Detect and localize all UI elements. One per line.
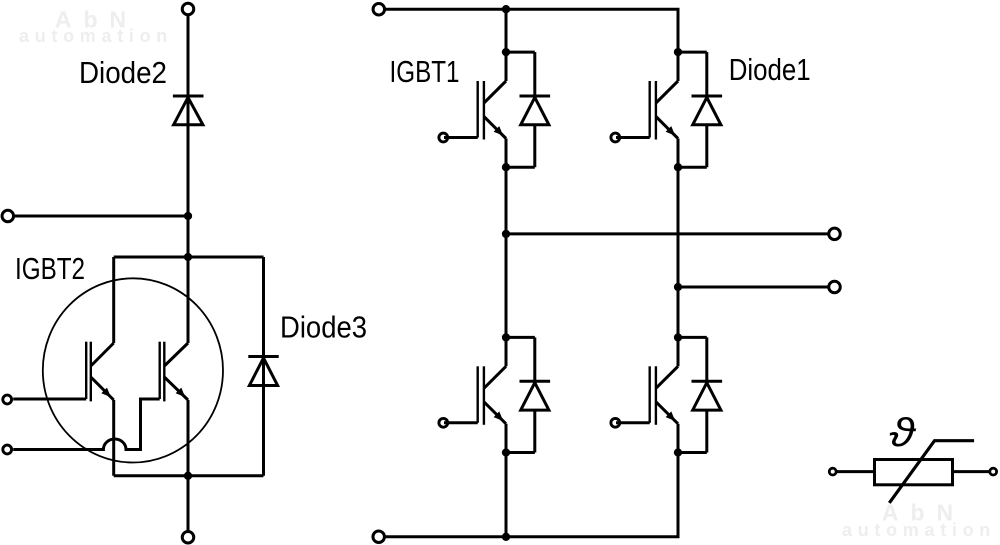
watermark top-left "AbN automation" — [19, 7, 173, 47]
transistor Q1 (top-left) emitter arrow — [494, 126, 504, 136]
transistor Q3 (bottom-left) emitter arrow — [494, 411, 504, 421]
transistor IGBT2-A body bar — [90, 342, 92, 402]
terminal V (output 2) — [829, 281, 841, 293]
diode Diode2 triangle — [174, 97, 203, 124]
svg-text:ϑ: ϑ — [889, 411, 917, 455]
svg-text:Diode2: Diode2 — [79, 55, 167, 90]
diode Diode3 triangle — [249, 358, 277, 386]
wire gate lead G1 — [13, 398, 86, 401]
transistor Q4 (bottom-right) emitter diagonal — [656, 402, 678, 424]
wire IGBT2-B collector lead — [187, 257, 190, 343]
wire Q2 (top-right) diode bottom stub — [678, 166, 707, 169]
watermark bottom-right "AbN automation" — [842, 500, 996, 541]
wire IGBT2-A collector lead — [112, 257, 115, 343]
wire Q2 (top-right) diode cathode lead — [705, 52, 708, 96]
wire IGBT2 module bottom rail — [114, 474, 264, 477]
terminal P3 (bottom of IGBT2 branch) — [182, 532, 194, 544]
junction Q3 (bottom-left) collector node — [502, 333, 510, 341]
wire Q2 (top-right) gate lead — [616, 136, 650, 139]
wire terminal P2 to node A — [14, 215, 188, 218]
transistor Q4 (bottom-right) collector lead — [677, 337, 680, 366]
wire left column between modules — [505, 167, 508, 337]
transistor Q3 (bottom-left) gate bar — [477, 366, 479, 423]
wire Q3 (bottom-left) diode cathode lead — [533, 337, 536, 381]
junction Q1 (top-left) emitter node — [502, 163, 510, 171]
wire Q4 (bottom-right) diode anode lead — [705, 410, 708, 452]
junction Q4 (bottom-right) collector node — [674, 333, 682, 341]
transistor IGBT2-B collector diagonal — [164, 343, 188, 366]
junction node C (IGBT2 bottom rail) — [184, 472, 192, 480]
diode D1b cathode bar — [692, 95, 723, 98]
transistor IGBT2-A collector diagonal — [91, 343, 114, 366]
transistor Q1 (top-left) gate bar — [477, 81, 479, 138]
transistor Q3 (bottom-left) collector diagonal — [484, 366, 506, 388]
wire Q2 (top-right) emitter lead — [677, 139, 680, 168]
transistor Q2 (top-right) emitter arrow — [666, 126, 676, 136]
transistor IGBT2-B body bar — [163, 342, 165, 402]
terminal P1 (top of Diode2 branch) — [182, 3, 194, 15]
transistor Q1 (top-left) emitter diagonal — [484, 117, 506, 139]
wire Q1 (top-left) diode cathode lead — [533, 52, 536, 96]
transistor IGBT2-A (left transistor of module) — [86, 257, 114, 476]
wire IGBT2 module top rail — [114, 256, 264, 259]
wire phase rail U to terminal — [506, 232, 829, 235]
terminal Q1 (top-left) gate — [439, 133, 448, 142]
transistor IGBT2-B (right transistor of module) — [160, 257, 188, 476]
transistor Q3 (bottom-left) body bar — [483, 366, 485, 425]
transistor IGBT2-A gate bar — [85, 342, 87, 399]
transistor Q4 (bottom-right) body bar — [655, 366, 657, 425]
transistor IGBT2-A emitter arrow — [101, 388, 111, 398]
wire Q4 (bottom-right) gate lead — [616, 421, 650, 424]
junction Q3 (bottom-left) emitter node — [502, 448, 510, 456]
wire Q2 (top-right) diode anode lead — [705, 125, 708, 167]
wire Q4 (bottom-right) emitter lead — [677, 424, 680, 453]
wire Q4 (bottom-right) diode bottom stub — [678, 451, 707, 454]
svg-text:automation: automation — [842, 520, 996, 540]
terminal DC+ (top middle) — [373, 3, 385, 15]
terminal DC- (bottom middle) — [373, 531, 385, 543]
junction Q1 (top-left) collector node — [502, 48, 510, 56]
junction phase node U (left column) — [502, 230, 510, 238]
svg-text:automation: automation — [19, 26, 173, 46]
wire thermistor left lead — [836, 470, 874, 473]
wire Q3 (bottom-left) diode top stub — [506, 336, 535, 339]
junction Q2 (top-right) emitter node — [674, 163, 682, 171]
wire Q3 (bottom-left) diode bottom stub — [506, 451, 535, 454]
junction top rail / left column — [502, 5, 510, 13]
IGBT2 module enclosure circle — [43, 278, 223, 462]
transistor IGBT2-A emitter diagonal — [91, 377, 114, 400]
wire Q1 (top-left) diode top stub — [506, 51, 535, 54]
wire left column top drop — [505, 9, 508, 52]
diode D1c cathode bar — [520, 380, 551, 383]
terminal thermistor left — [829, 468, 836, 475]
transistor Q2 (top-right) collector diagonal — [656, 81, 678, 103]
svg-text:Diode1: Diode1 — [729, 52, 811, 87]
transistor Q3 (bottom-left) emitter diagonal — [484, 402, 506, 424]
transistor Q3 (bottom-left) collector lead — [505, 337, 508, 366]
terminal thermistor right — [990, 468, 997, 475]
wire node A down to IGBT2 top rail — [187, 216, 190, 257]
wire Q1 (top-left) diode anode lead — [533, 125, 536, 167]
wire Diode3 branch right edge (anode side) — [262, 356, 265, 476]
terminal Q3 (bottom-left) gate — [439, 418, 448, 427]
diode D1d triangle — [693, 383, 721, 410]
transistor IGBT2-B gate bar — [158, 342, 160, 399]
wire IGBT2-A emitter lead — [112, 400, 115, 476]
diode Diode3 cathode bar — [248, 355, 278, 358]
wire Q1 (top-left) emitter lead — [505, 139, 508, 168]
transistor Q2 (top-right) emitter diagonal — [656, 117, 678, 139]
diode D1b triangle — [693, 97, 721, 124]
wire right column between modules (crosses rail U) — [677, 167, 680, 337]
wire Q1 (top-left) diode bottom stub — [506, 166, 535, 169]
diode D1a cathode bar — [520, 95, 551, 98]
transistor Q1 (top-left) body bar — [483, 81, 485, 140]
wire Diode3 branch right edge (cathode side) — [262, 257, 265, 356]
terminal G1 (gate of IGBT2-A) — [3, 395, 12, 404]
transistor IGBT2-B emitter diagonal — [164, 377, 188, 400]
wire thermistor right lead — [953, 470, 990, 473]
transistor Q2 (top-right) gate bar — [649, 81, 651, 138]
wire IGBT2-B emitter lead — [187, 400, 190, 476]
transistor Q2 (top-right) collector lead — [677, 52, 680, 81]
wire from terminal P1 down through Diode2 to mid node — [187, 15, 190, 216]
transistor Q4 (bottom-right) gate bar — [649, 366, 651, 423]
transistor Q1 (top-left) collector diagonal — [484, 81, 506, 103]
wire phase rail V to terminal — [678, 286, 829, 289]
wire Q2 (top-right) diode top stub — [678, 51, 707, 54]
terminal G2 (gate of IGBT2-B) — [3, 445, 12, 454]
wire Q3 (bottom-left) diode anode lead — [533, 410, 536, 452]
diode D1a triangle — [521, 97, 549, 124]
transistor IGBT2-B emitter arrow — [176, 388, 186, 398]
junction node A (Diode2 / P2 / IGBT2 top) — [184, 212, 192, 220]
junction node B (IGBT2 top rail) — [184, 253, 192, 261]
thermistor R1 diagonal stroke — [889, 441, 974, 503]
wire DC- bottom rail with corner to right column — [385, 453, 678, 537]
wire Q4 (bottom-right) diode cathode lead — [705, 337, 708, 381]
terminal Q2 (top-right) gate — [611, 133, 620, 142]
diode Diode2 cathode bar — [173, 95, 204, 98]
wire node C down to terminal P3 — [187, 476, 190, 532]
terminal P2 (left, collector rail of IGBT2) — [2, 210, 14, 222]
transistor Q4 (bottom-right) emitter arrow — [666, 411, 676, 421]
wire DC+ top rail with corner to right column — [385, 9, 678, 52]
terminal U (output 1) — [829, 228, 841, 240]
transistor Q2 (top-right) body bar — [655, 81, 657, 140]
junction phase node V (right column) — [674, 283, 682, 291]
svg-text:IGBT2: IGBT2 — [15, 251, 85, 286]
wire gate lead G2 with crossover hump — [13, 399, 160, 450]
junction Q4 (bottom-right) emitter node — [674, 448, 682, 456]
wire Q4 (bottom-right) diode top stub — [678, 336, 707, 339]
svg-text:IGBT1: IGBT1 — [390, 54, 460, 89]
resistor R1 (thermistor body) — [875, 460, 953, 485]
diode D1d cathode bar — [692, 380, 723, 383]
transistor Q4 (bottom-right) collector diagonal — [656, 366, 678, 388]
diode D1c triangle — [521, 383, 549, 410]
wire Q3 (bottom-left) emitter lead — [505, 424, 508, 453]
svg-text:Diode3: Diode3 — [280, 310, 367, 345]
junction bottom rail / left column — [502, 533, 510, 541]
wire left column bottom drop — [505, 453, 508, 537]
transistor Q1 (top-left) collector lead — [505, 52, 508, 81]
junction Q2 (top-right) collector node — [674, 48, 682, 56]
wire Q1 (top-left) gate lead — [444, 136, 478, 139]
wire Q3 (bottom-left) gate lead — [444, 421, 478, 424]
terminal Q4 (bottom-right) gate — [611, 418, 620, 427]
